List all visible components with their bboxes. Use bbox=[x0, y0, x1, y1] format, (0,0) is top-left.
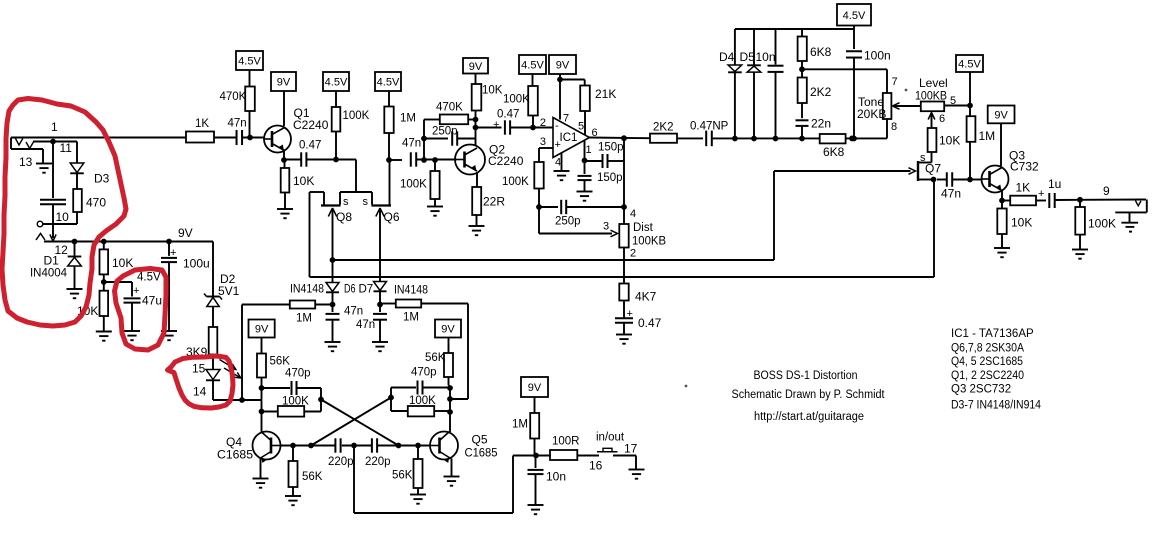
svg-text:Q1, 2 2SC2240: Q1, 2 2SC2240 bbox=[951, 370, 1024, 382]
svg-text:1M: 1M bbox=[512, 419, 528, 431]
svg-text:10n: 10n bbox=[546, 470, 566, 484]
svg-text:2: 2 bbox=[540, 117, 546, 129]
svg-text:IN4004: IN4004 bbox=[30, 266, 67, 280]
svg-text:250p: 250p bbox=[555, 216, 581, 228]
svg-text:7: 7 bbox=[892, 76, 898, 88]
svg-text:1M: 1M bbox=[400, 113, 416, 125]
svg-text:0.47NP: 0.47NP bbox=[690, 121, 729, 133]
svg-text:D4: D4 bbox=[719, 50, 735, 64]
svg-text:+: + bbox=[1038, 188, 1044, 200]
svg-text:10: 10 bbox=[56, 210, 70, 224]
svg-text:2K2: 2K2 bbox=[810, 85, 832, 99]
svg-text:0.47: 0.47 bbox=[638, 316, 662, 330]
svg-text:BOSS DS-1 Distortion: BOSS DS-1 Distortion bbox=[754, 370, 858, 382]
svg-text:+: + bbox=[133, 285, 139, 297]
svg-text:C2240: C2240 bbox=[293, 118, 329, 132]
svg-text:4.5V: 4.5V bbox=[325, 77, 348, 89]
svg-text:Q3 2SC732: Q3 2SC732 bbox=[951, 384, 1011, 396]
svg-text:22R: 22R bbox=[483, 195, 505, 209]
svg-text:47n: 47n bbox=[356, 319, 375, 331]
svg-text:10K: 10K bbox=[939, 134, 960, 148]
svg-text:0.47: 0.47 bbox=[299, 140, 321, 152]
svg-text:1M: 1M bbox=[979, 129, 996, 143]
svg-text:Q6,7,8 2SK30A: Q6,7,8 2SK30A bbox=[951, 343, 1024, 355]
svg-text:56K: 56K bbox=[302, 471, 323, 483]
svg-text:IC1: IC1 bbox=[560, 132, 578, 144]
svg-text:6K8: 6K8 bbox=[810, 45, 832, 59]
svg-text:4.5V: 4.5V bbox=[843, 10, 866, 22]
svg-text:250p: 250p bbox=[432, 126, 458, 138]
svg-text:4: 4 bbox=[630, 208, 636, 220]
svg-text:+: + bbox=[555, 139, 561, 151]
svg-text:11: 11 bbox=[60, 141, 73, 155]
svg-text:47n: 47n bbox=[402, 138, 421, 150]
svg-text:10K: 10K bbox=[1011, 216, 1032, 230]
svg-text:220p: 220p bbox=[328, 456, 354, 468]
svg-text:3: 3 bbox=[603, 221, 609, 233]
svg-text:13: 13 bbox=[19, 155, 33, 169]
svg-text:4.5V: 4.5V bbox=[958, 59, 981, 71]
svg-text:7: 7 bbox=[563, 113, 569, 125]
svg-text:9V: 9V bbox=[528, 382, 542, 394]
svg-text:15: 15 bbox=[192, 362, 206, 376]
svg-text:9V: 9V bbox=[178, 226, 193, 240]
svg-text:5V1: 5V1 bbox=[218, 284, 240, 298]
svg-text:8: 8 bbox=[891, 121, 897, 133]
svg-text:100u: 100u bbox=[183, 257, 210, 271]
svg-text:http://start.at/guitarage: http://start.at/guitarage bbox=[754, 411, 864, 423]
svg-text:150p: 150p bbox=[598, 142, 624, 154]
svg-text:150p: 150p bbox=[597, 172, 623, 184]
svg-text:s: s bbox=[363, 196, 369, 208]
svg-text:100K: 100K bbox=[502, 176, 529, 188]
svg-text:470K: 470K bbox=[220, 91, 247, 103]
svg-text:6: 6 bbox=[939, 113, 945, 125]
svg-text:4: 4 bbox=[555, 157, 561, 169]
svg-text:21K: 21K bbox=[595, 87, 616, 101]
svg-text:1: 1 bbox=[586, 144, 592, 156]
svg-text:9V: 9V bbox=[277, 77, 291, 89]
svg-text:1M: 1M bbox=[403, 312, 419, 324]
svg-text:Q7: Q7 bbox=[925, 162, 941, 176]
svg-text:+: + bbox=[493, 119, 499, 131]
svg-text:4.5V: 4.5V bbox=[137, 272, 161, 284]
svg-text:D3: D3 bbox=[94, 172, 110, 186]
svg-text:Q8: Q8 bbox=[336, 210, 352, 224]
svg-text:Q5: Q5 bbox=[472, 433, 488, 447]
svg-text:47n: 47n bbox=[228, 118, 247, 130]
svg-text:C2240: C2240 bbox=[488, 154, 524, 168]
svg-text:6K8: 6K8 bbox=[823, 145, 845, 159]
svg-text:100K: 100K bbox=[409, 395, 436, 407]
svg-text:10K: 10K bbox=[293, 174, 314, 188]
svg-text:100K: 100K bbox=[343, 110, 370, 122]
svg-text:-: - bbox=[555, 120, 559, 132]
svg-text:100K: 100K bbox=[1088, 217, 1116, 231]
svg-text:470K: 470K bbox=[436, 102, 463, 114]
svg-text:470p: 470p bbox=[285, 368, 311, 380]
svg-text:2K2: 2K2 bbox=[653, 122, 673, 134]
svg-text:0.47: 0.47 bbox=[497, 109, 519, 121]
svg-text:Dist: Dist bbox=[633, 222, 654, 234]
svg-text:C1685: C1685 bbox=[465, 446, 498, 460]
svg-text:1u: 1u bbox=[1048, 177, 1061, 191]
svg-text:56K: 56K bbox=[425, 352, 446, 364]
svg-text:1: 1 bbox=[51, 120, 58, 134]
svg-text:9V: 9V bbox=[441, 324, 455, 336]
svg-text:47u: 47u bbox=[142, 294, 162, 308]
svg-text:10n: 10n bbox=[756, 50, 776, 64]
svg-text:9V: 9V bbox=[255, 324, 269, 336]
svg-text:D6: D6 bbox=[344, 284, 356, 296]
svg-text:IC1 - TA7136AP: IC1 - TA7136AP bbox=[951, 328, 1034, 340]
svg-text:in/out: in/out bbox=[596, 432, 625, 444]
svg-text:1K: 1K bbox=[195, 118, 209, 130]
svg-text:2: 2 bbox=[630, 248, 636, 260]
svg-text:Q6: Q6 bbox=[384, 210, 400, 224]
svg-text:9V: 9V bbox=[556, 60, 570, 72]
svg-text:Schematic Drawn by P. Schmidt: Schematic Drawn by P. Schmidt bbox=[732, 389, 886, 401]
svg-text:C1685: C1685 bbox=[217, 448, 253, 462]
svg-text:IN4148: IN4148 bbox=[290, 284, 324, 296]
svg-text:4.5V: 4.5V bbox=[377, 77, 400, 89]
svg-text:100K: 100K bbox=[282, 396, 309, 408]
svg-text:10K: 10K bbox=[112, 256, 133, 270]
svg-text:470: 470 bbox=[86, 196, 106, 210]
svg-text:470p: 470p bbox=[411, 367, 437, 379]
svg-text:17: 17 bbox=[624, 442, 638, 456]
svg-text:16: 16 bbox=[589, 459, 603, 473]
svg-text:4K7: 4K7 bbox=[635, 290, 657, 304]
svg-text:56K: 56K bbox=[270, 356, 291, 368]
svg-text:9: 9 bbox=[1103, 184, 1110, 198]
svg-text:20KB: 20KB bbox=[857, 107, 886, 121]
svg-text:47n: 47n bbox=[344, 306, 363, 318]
svg-text:Q4, 5 2SC1685: Q4, 5 2SC1685 bbox=[951, 356, 1023, 368]
svg-text:1M: 1M bbox=[296, 313, 312, 325]
svg-text:47n: 47n bbox=[941, 187, 961, 201]
svg-text:D3-7 IN4148/IN914: D3-7 IN4148/IN914 bbox=[951, 400, 1042, 412]
svg-text:9V: 9V bbox=[994, 109, 1008, 121]
svg-text:100KB: 100KB bbox=[915, 91, 947, 103]
svg-text:100KB: 100KB bbox=[632, 236, 666, 248]
svg-text:9V: 9V bbox=[469, 61, 483, 73]
svg-text:IN4148: IN4148 bbox=[394, 285, 428, 297]
svg-text:D5: D5 bbox=[740, 50, 756, 64]
svg-text:100K: 100K bbox=[400, 179, 427, 191]
svg-text:4.5V: 4.5V bbox=[521, 60, 544, 72]
svg-text:D7: D7 bbox=[359, 284, 374, 296]
svg-text:100R: 100R bbox=[552, 436, 580, 448]
svg-text:5: 5 bbox=[578, 121, 584, 133]
svg-text:C732: C732 bbox=[1010, 160, 1039, 174]
svg-text:100n: 100n bbox=[864, 49, 891, 63]
svg-text:22n: 22n bbox=[811, 117, 831, 131]
svg-text:220p: 220p bbox=[365, 456, 391, 468]
svg-text:Level: Level bbox=[919, 76, 948, 90]
svg-text:3: 3 bbox=[540, 136, 546, 148]
svg-text:s: s bbox=[343, 196, 349, 208]
svg-text:4.5V: 4.5V bbox=[238, 56, 261, 68]
svg-text:100K: 100K bbox=[503, 94, 530, 106]
svg-text:10K: 10K bbox=[482, 85, 503, 97]
svg-text:1K: 1K bbox=[1016, 181, 1031, 195]
svg-text:56K: 56K bbox=[392, 470, 413, 482]
svg-text:14: 14 bbox=[193, 385, 207, 399]
